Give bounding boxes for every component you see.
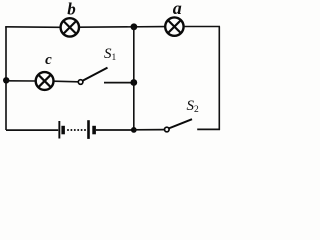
wire: S1 fixed side to middle junction xyxy=(104,82,134,84)
wire: top, left corner to lamp b xyxy=(5,26,60,29)
wire: right vertical side xyxy=(218,27,220,131)
wire: middle branch, left edge to lamp c xyxy=(6,80,36,82)
battery cell 2 short plate xyxy=(92,126,96,135)
battery cell 2 long plate xyxy=(87,120,90,139)
wire: middle vertical xyxy=(133,27,135,130)
wire: lamp c to switch S1 pivot xyxy=(54,80,78,83)
svg-text:c: c xyxy=(45,52,52,68)
battery cell 1 long plate xyxy=(58,121,60,139)
switch S1 blade (open) xyxy=(82,68,107,81)
svg-text:b: b xyxy=(67,0,76,19)
wire: top, lamp a to right corner xyxy=(184,26,220,28)
node: junction bottom xyxy=(131,127,137,133)
wire: bottom, left corner to battery xyxy=(6,129,58,131)
wire: battery to bottom junction xyxy=(96,129,134,131)
battery cell 1 short plate xyxy=(61,126,65,135)
lamp a xyxy=(165,17,183,35)
lamp c xyxy=(36,72,54,90)
wire: bottom junction to switch S2 pivot xyxy=(134,129,165,131)
wire: S2 fixed side to bottom right corner xyxy=(197,128,220,130)
svg-text:S2: S2 xyxy=(187,98,200,115)
wire: left vertical side xyxy=(5,27,7,130)
battery dotted continuation xyxy=(67,129,86,131)
svg-text:a: a xyxy=(173,0,182,18)
node: junction left middle xyxy=(3,77,9,83)
node: junction middle right xyxy=(130,79,137,86)
switch S2 pivot contact xyxy=(165,127,170,132)
wire: top, lamp b to lamp a xyxy=(80,26,166,29)
node: junction top (middle branch tap) xyxy=(131,23,138,30)
switch S1 pivot contact xyxy=(78,80,83,85)
svg-text:S1: S1 xyxy=(104,46,117,63)
lamp b xyxy=(61,18,79,36)
switch S2 blade (open) xyxy=(169,119,193,128)
